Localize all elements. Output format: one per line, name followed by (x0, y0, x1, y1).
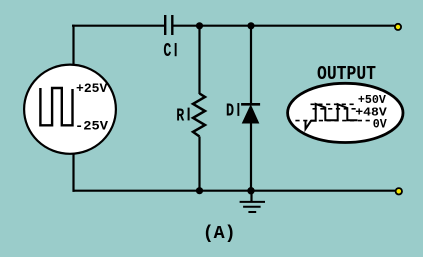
node: junction dot bottom of D1 (ground node) (247, 187, 254, 194)
label C1 (163, 40, 176, 62)
wire: top rail right segment (C1 right plate to output terminal) (174, 25, 395, 27)
wire: R1 top lead (198, 26, 200, 94)
svg-text:+25V: +25V (76, 82, 108, 96)
capacitor C1 plates (165, 15, 172, 35)
resistor R1 zigzag (193, 94, 205, 137)
wire: source top lead (72, 25, 74, 65)
wire: D1 bottom lead (250, 123, 252, 191)
wire: bottom rail (73, 190, 396, 192)
svg-text:C: C (163, 40, 171, 62)
terminal: output bottom (yellow) (396, 188, 402, 194)
wire: R1 bottom lead (198, 137, 200, 191)
svg-text:(A): (A) (203, 223, 236, 244)
dashed level line 0V (295, 120, 372, 122)
diode D1 triangle (243, 106, 259, 124)
output waveform trace (306, 104, 358, 129)
node: junction dot top of D1 (247, 22, 254, 29)
svg-text:0V: 0V (373, 118, 387, 132)
output scope ellipse (288, 83, 403, 142)
terminal: output top (yellow) (395, 24, 401, 30)
svg-text:OUTPUT: OUTPUT (317, 63, 376, 85)
svg-text:D: D (226, 101, 234, 122)
dashed level line +50V (311, 103, 355, 105)
svg-text:R: R (176, 106, 185, 127)
svg-text:-25V: -25V (75, 119, 108, 133)
label R1 (176, 106, 189, 127)
generator V1 (square-wave source) circle (24, 65, 116, 154)
wire: D1 top lead (250, 26, 252, 104)
wire: top rail left segment (source to C1 left plate) (72, 25, 164, 27)
node: junction dot top of R1 (196, 22, 203, 29)
dashed level line +48V (313, 108, 357, 110)
wire: source bottom lead (72, 153, 74, 192)
ground symbol (240, 191, 265, 212)
diode D1 cathode bar (241, 103, 260, 106)
node: junction dot bottom of R1 (196, 187, 203, 194)
square wave symbol inside source (40, 88, 72, 125)
label D1 (226, 101, 239, 122)
